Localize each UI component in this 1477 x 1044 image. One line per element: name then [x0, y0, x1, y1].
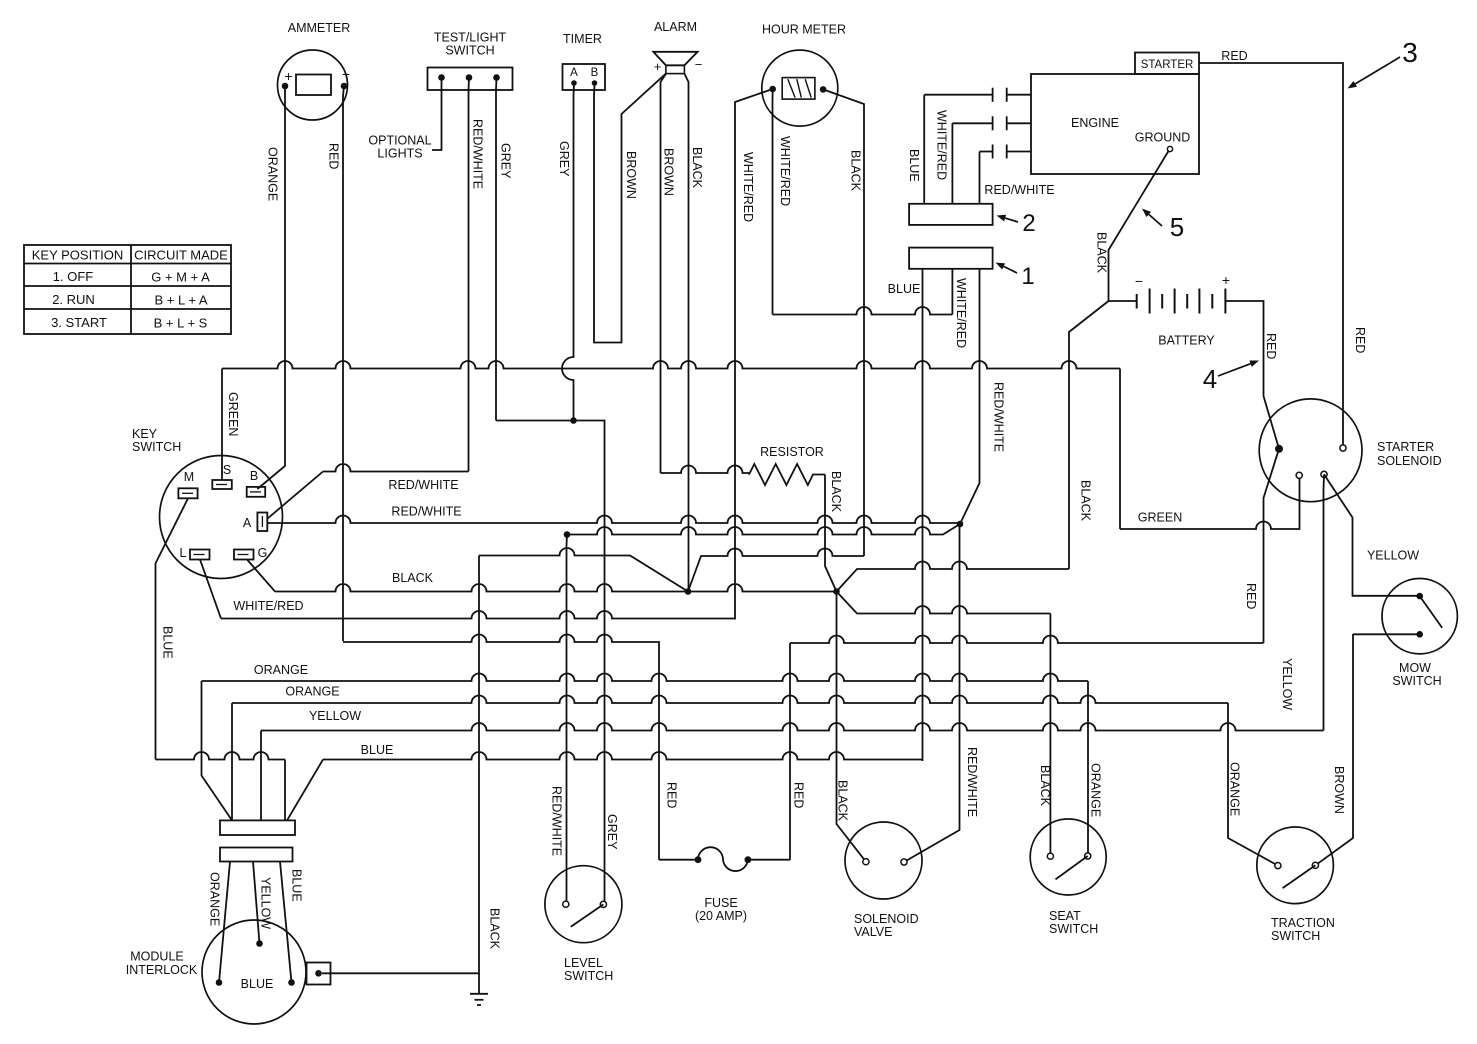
key terminal A: [243, 513, 267, 532]
bus BLACK branch to engine ground: [837, 562, 1070, 592]
svg-text:1. OFF: 1. OFF: [53, 269, 94, 284]
svg-text:AMMETER: AMMETER: [288, 21, 351, 35]
svg-text:RED/WHITE: RED/WHITE: [965, 747, 979, 817]
svg-text:G + M + A: G + M + A: [151, 270, 210, 285]
key terminal L: [180, 546, 210, 560]
wire interlock orange: [219, 862, 230, 983]
svg-text:RED: RED: [1221, 49, 1247, 63]
traction switch: [1257, 827, 1335, 943]
svg-text:B + L + A: B + L + A: [154, 293, 207, 308]
module interlock output block: [307, 963, 331, 985]
starter tab on engine: [1135, 53, 1199, 75]
wire YELLOW drop to interlock: [259, 731, 273, 930]
wire timer B to alarm + (BROWN loop): [594, 74, 666, 343]
bus GREY (test/light + timer to level switch): [496, 421, 605, 904]
wire GREEN riser right: [1119, 369, 1121, 530]
bus YELLOW: [261, 709, 1324, 731]
svg-text:BROWN: BROWN: [1332, 766, 1346, 814]
svg-text:SOLENOID: SOLENOID: [1377, 454, 1442, 468]
svg-text:WHITE/RED: WHITE/RED: [741, 152, 755, 222]
wire ORANGE to traction switch: [1228, 703, 1278, 866]
svg-text:RED: RED: [1264, 333, 1278, 359]
svg-text:RED/WHITE: RED/WHITE: [391, 505, 461, 519]
wire BLUE connector1 down: [922, 269, 924, 761]
resistor: [661, 445, 826, 485]
svg-text:GREY: GREY: [499, 143, 513, 179]
wire resistor BLACK down: [825, 471, 843, 592]
battery: [1135, 272, 1230, 348]
label 2 with arrow: [997, 210, 1036, 237]
svg-text:1: 1: [1021, 263, 1034, 290]
svg-text:G: G: [258, 546, 268, 560]
svg-text:BROWN: BROWN: [662, 148, 676, 196]
svg-text:GREEN: GREEN: [1138, 511, 1182, 525]
svg-text:B: B: [591, 67, 599, 79]
svg-text:RED: RED: [327, 143, 341, 169]
junction GREY: [570, 417, 577, 424]
connector 1: [909, 248, 993, 269]
svg-text:WHITE/RED: WHITE/RED: [954, 278, 968, 348]
svg-text:B + L + S: B + L + S: [154, 316, 208, 331]
svg-text:CIRCUIT MADE: CIRCUIT MADE: [134, 248, 228, 263]
junction BLACK: [685, 588, 692, 595]
wire BROWN mow lower: [1353, 633, 1420, 635]
wire BLUE drop to interlock: [285, 760, 323, 902]
svg-text:OPTIONAL: OPTIONAL: [368, 134, 431, 148]
svg-text:TEST/LIGHT: TEST/LIGHT: [434, 31, 507, 45]
svg-text:WHITE/RED: WHITE/RED: [778, 136, 792, 206]
svg-text:2. RUN: 2. RUN: [52, 292, 95, 307]
bus RED/WHITE 3 (to level switch): [567, 524, 960, 535]
wire key M BLUE down: [156, 498, 189, 759]
wire RED/WHITE engine to connector 2: [980, 152, 1055, 204]
ammeter: [278, 21, 351, 120]
svg-text:SWITCH: SWITCH: [132, 440, 181, 454]
svg-text:LEVEL: LEVEL: [564, 956, 603, 970]
svg-text:RED/WHITE: RED/WHITE: [992, 382, 1006, 452]
svg-text:BLACK: BLACK: [836, 780, 850, 822]
svg-text:ENGINE: ENGINE: [1071, 116, 1119, 130]
svg-text:WHITE/RED: WHITE/RED: [233, 599, 303, 613]
svg-text:4: 4: [1203, 364, 1217, 394]
connector 2: [909, 204, 993, 225]
module interlock: [126, 920, 306, 1024]
svg-text:BLUE: BLUE: [907, 149, 921, 182]
bus GREEN to starter solenoid: [1120, 475, 1300, 529]
svg-text:BLACK: BLACK: [829, 471, 843, 513]
svg-text:M: M: [184, 470, 194, 484]
svg-text:GREY: GREY: [557, 141, 571, 177]
svg-text:RESISTOR: RESISTOR: [760, 445, 824, 459]
key terminal S: [212, 463, 232, 489]
wire alarm - BLACK down: [684, 74, 704, 592]
svg-text:BLUE: BLUE: [361, 743, 394, 757]
svg-text:ALARM: ALARM: [654, 20, 697, 34]
junction: [564, 531, 571, 538]
wire hour meter left WHITE/RED to key L bus: [735, 89, 773, 620]
wire WHITE/RED connector1 to hour meter: [888, 269, 968, 348]
bus BLUE right: [323, 743, 923, 760]
module interlock connector upper: [220, 820, 295, 835]
svg-text:ORANGE: ORANGE: [1089, 763, 1103, 817]
bus RED right (fuse to battery): [790, 636, 1264, 644]
svg-text:YELLOW: YELLOW: [1280, 658, 1294, 710]
bus top (GREEN net): [222, 361, 1120, 369]
svg-text:BATTERY: BATTERY: [1158, 334, 1215, 348]
bus BLUE left: [156, 752, 286, 760]
svg-text:BLACK: BLACK: [690, 147, 704, 189]
wire hour meter right BLACK down: [823, 89, 864, 556]
wire ORANGE1 drop to interlock: [202, 681, 233, 926]
svg-text:TRACTION: TRACTION: [1271, 916, 1335, 930]
module interlock connector lower: [220, 848, 293, 862]
svg-text:BLUE: BLUE: [161, 626, 175, 659]
bus ORANGE 1: [202, 663, 1089, 681]
wire timer A GREY down with hop over bus: [557, 85, 574, 421]
wire GREY label: [605, 814, 619, 850]
wire RED/WHITE to solenoid valve: [904, 524, 979, 862]
svg-text:−: −: [695, 57, 703, 72]
svg-text:SWITCH: SWITCH: [1049, 922, 1098, 936]
wire hour-meter/connector1 WHITE/RED link: [773, 307, 953, 315]
wire battery plus lead to RED bus: [1225, 301, 1263, 396]
svg-text:RED/WHITE: RED/WHITE: [388, 478, 458, 492]
engine ground terminal: [1135, 131, 1191, 152]
svg-text:L: L: [180, 546, 187, 560]
wire interlock yellow: [253, 862, 260, 944]
wire test/light pin1 to optional lights: [368, 78, 441, 161]
svg-text:GREY: GREY: [605, 814, 619, 850]
svg-text:BLUE: BLUE: [290, 869, 304, 902]
wire RED from starter to starter solenoid: [1199, 49, 1343, 448]
svg-text:HOUR METER: HOUR METER: [762, 23, 846, 37]
test/light switch: [428, 31, 513, 91]
wire ammeter - (RED) down: [327, 86, 345, 641]
svg-text:S: S: [223, 463, 231, 477]
wire alarm BROWN down to resistor feed: [661, 74, 676, 473]
bus ORANGE 2: [232, 685, 1228, 704]
svg-text:RED: RED: [665, 782, 679, 808]
svg-text:SWITCH: SWITCH: [1271, 929, 1320, 943]
svg-text:3. START: 3. START: [51, 315, 107, 330]
key position table: [24, 245, 231, 334]
svg-text:2: 2: [1022, 210, 1035, 237]
svg-text:BLACK: BLACK: [488, 908, 502, 950]
wire BLUE engine to connector 2: [907, 95, 924, 204]
svg-text:RED: RED: [1244, 583, 1258, 609]
svg-text:SOLENOID: SOLENOID: [854, 912, 919, 926]
wire WHITE/RED engine to connector 2: [935, 110, 953, 204]
svg-text:ORANGE: ORANGE: [208, 872, 222, 926]
wire RED/WHITE connector1 down: [960, 269, 1006, 524]
svg-text:RED/WHITE: RED/WHITE: [550, 786, 564, 856]
svg-text:3: 3: [1402, 37, 1418, 68]
svg-text:+: +: [1222, 272, 1230, 288]
svg-text:ORANGE: ORANGE: [285, 685, 339, 699]
svg-text:INTERLOCK: INTERLOCK: [126, 963, 198, 977]
svg-text:KEY: KEY: [132, 427, 158, 441]
key terminal B: [247, 469, 266, 497]
svg-text:MOW: MOW: [1399, 661, 1431, 675]
svg-text:WHITE/RED: WHITE/RED: [935, 110, 949, 180]
svg-text:SEAT: SEAT: [1049, 909, 1081, 923]
wire key G to BLACK bus: [247, 560, 275, 592]
svg-text:MODULE: MODULE: [130, 950, 183, 964]
svg-text:BLACK: BLACK: [1079, 480, 1093, 522]
wire GREEN key S to top bus: [222, 369, 240, 481]
svg-text:VALVE: VALVE: [854, 925, 892, 939]
spark plug gap 3: [980, 145, 1032, 159]
engine: [1031, 74, 1199, 174]
svg-text:TIMER: TIMER: [563, 32, 602, 46]
svg-text:BLACK: BLACK: [1095, 232, 1109, 274]
svg-text:5: 5: [1170, 212, 1184, 242]
svg-text:STARTER: STARTER: [1141, 59, 1194, 71]
svg-text:(20 AMP): (20 AMP): [695, 909, 747, 923]
starter solenoid: [1259, 399, 1441, 502]
svg-text:BLUE: BLUE: [888, 282, 921, 296]
spark plug gap 1: [924, 88, 1031, 102]
svg-text:STARTER: STARTER: [1377, 440, 1434, 454]
wire BROWN mow to traction switch: [1315, 634, 1353, 865]
svg-text:KEY POSITION: KEY POSITION: [32, 248, 124, 263]
wire YELLOW solenoid to yellow bus: [1280, 474, 1324, 730]
solenoid valve: [845, 822, 922, 939]
svg-text:−: −: [342, 66, 350, 82]
svg-text:BLACK: BLACK: [1038, 765, 1052, 807]
spark plug gap 2: [952, 116, 1031, 130]
svg-text:B: B: [250, 469, 258, 483]
label 3 with arrow: [1348, 37, 1418, 89]
wire interlock blue: [280, 862, 292, 983]
key terminal M: [178, 470, 197, 498]
label 5 with arrow: [1142, 209, 1184, 243]
bus BLACK upper-left segment: [479, 548, 688, 591]
junction ignition RED/WHITE: [957, 521, 964, 528]
svg-text:RED: RED: [792, 782, 806, 808]
bus BLACK main: [275, 571, 837, 592]
label 1 with arrow: [996, 263, 1035, 291]
bus RED/WHITE 2 (key A to ignition): [267, 505, 960, 524]
svg-text:ORANGE: ORANGE: [266, 147, 280, 201]
svg-text:RED/WHITE: RED/WHITE: [984, 183, 1054, 197]
key terminal G: [234, 546, 267, 560]
svg-text:SWITCH: SWITCH: [564, 969, 613, 983]
svg-text:A: A: [570, 67, 578, 79]
svg-text:SWITCH: SWITCH: [1392, 674, 1441, 688]
svg-text:BROWN: BROWN: [624, 151, 638, 199]
bus BLACK upper-right segment: [688, 549, 864, 592]
svg-text:−: −: [1135, 273, 1143, 289]
wire YELLOW solenoid to mow switch: [1324, 474, 1420, 595]
svg-text:A: A: [243, 516, 252, 530]
svg-text:+: +: [284, 68, 292, 84]
svg-text:FUSE: FUSE: [704, 896, 737, 910]
svg-text:+: +: [654, 59, 662, 74]
wire RED fuse riser: [790, 643, 806, 860]
mow switch: [1382, 579, 1457, 689]
junction BLACK right: [833, 588, 840, 595]
svg-text:BLACK: BLACK: [849, 150, 863, 192]
wire RED/WHITE down to level switch: [550, 535, 568, 905]
svg-text:LIGHTS: LIGHTS: [377, 147, 422, 161]
seat switch: [1030, 819, 1106, 936]
wire key A to RED/WHITE bus 1: [267, 472, 323, 520]
svg-text:GROUND: GROUND: [1135, 131, 1191, 145]
svg-text:GREEN: GREEN: [226, 392, 240, 436]
bus RED/WHITE 1 (key A to test/light): [323, 464, 469, 492]
wire BLACK to solenoid valve: [836, 592, 866, 862]
wire BLACK interlock to ground: [322, 556, 502, 974]
ground: [470, 973, 488, 1005]
bus BLACK branch to seat switch: [837, 592, 1051, 614]
wire hour meter left WHITE/RED to connector 1: [773, 89, 793, 315]
wire engine ground BLACK to battery minus and chassis: [1069, 151, 1169, 569]
key switch: [132, 427, 283, 579]
level switch: [545, 866, 622, 983]
svg-text:YELLOW: YELLOW: [1367, 549, 1419, 563]
svg-text:YELLOW: YELLOW: [309, 709, 361, 723]
svg-text:RED/WHITE: RED/WHITE: [471, 119, 485, 189]
svg-text:BLACK: BLACK: [392, 571, 434, 585]
wire ammeter + (ORANGE) down to key switch B: [257, 86, 285, 489]
fuse (20 AMP): [659, 782, 790, 923]
wire RED battery riser: [1244, 327, 1367, 643]
wire ORANGE2 drop to interlock: [231, 703, 233, 820]
bus RED left (ammeter to fuse): [343, 635, 659, 860]
wire battery minus lead: [1109, 300, 1137, 302]
wire key L to WHITE/RED bus: [200, 560, 221, 619]
svg-text:ORANGE: ORANGE: [1228, 762, 1242, 816]
wire ORANGE to seat switch: [1088, 681, 1103, 856]
wire BLACK to seat switch: [1038, 614, 1052, 857]
hour meter: [762, 23, 846, 127]
alarm: [653, 20, 702, 74]
bus WHITE/RED (key L to hour meter): [221, 599, 735, 619]
svg-text:RED: RED: [1353, 327, 1367, 353]
wire test/light pin2 RED/WHITE down: [469, 78, 485, 472]
svg-text:ORANGE: ORANGE: [254, 663, 308, 677]
label 4 with arrow: [1203, 361, 1259, 395]
svg-text:BLUE: BLUE: [241, 977, 274, 991]
wire test/light pin3 GREY down: [496, 78, 513, 421]
svg-text:SWITCH: SWITCH: [445, 44, 494, 58]
timer: [563, 32, 606, 90]
